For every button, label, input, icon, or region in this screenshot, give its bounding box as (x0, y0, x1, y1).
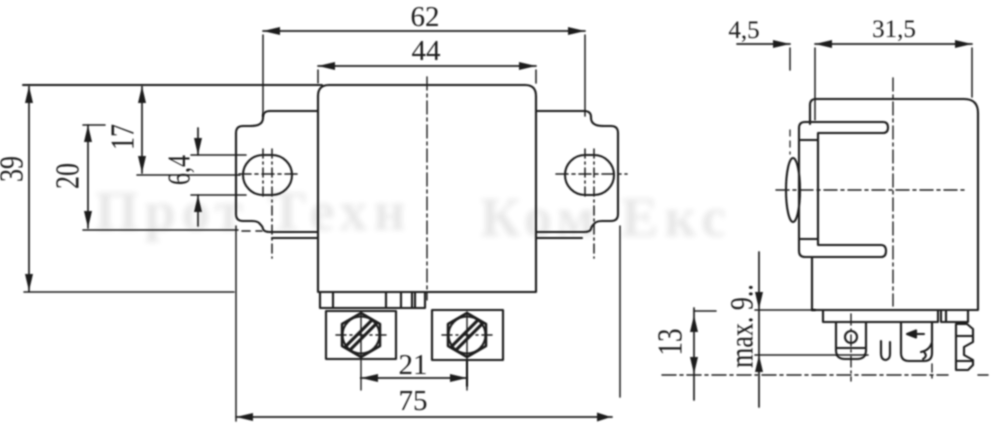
strip divider 1 (332, 292, 334, 308)
right bracket fold line (536, 237, 582, 239)
middle terminal stem (931, 322, 933, 341)
hex nut facet line top (956, 335, 973, 337)
bracket fold line bottom (799, 238, 818, 240)
right screw slot (452, 320, 482, 350)
middle terminal lower centerline (931, 364, 933, 378)
screw terminal shoulder line (836, 347, 866, 349)
left screw slot (346, 320, 376, 350)
right screw horizontal centerline (442, 334, 494, 336)
dim 62 (263, 27, 585, 116)
svg-text:17: 17 (103, 124, 141, 150)
svg-text:62: 62 (411, 1, 440, 33)
dim 4.5 (737, 40, 790, 154)
left screw horizontal centerline (336, 334, 388, 336)
svg-text:13: 13 (650, 329, 689, 356)
left screw circle (343, 317, 380, 354)
blade terminal front a (401, 292, 412, 308)
svg-text:20: 20 (48, 163, 86, 189)
left hole horizontal centerline (239, 173, 301, 175)
right screw circle (449, 317, 486, 354)
middle terminal arrow (907, 331, 924, 338)
terminals centerline right piece (978, 374, 992, 376)
side body vertical centerline (892, 78, 894, 306)
middle terminal hook (921, 342, 932, 359)
left hole vertical centerline (262, 149, 264, 199)
tab inner line (945, 310, 947, 322)
right hole vertical centerline (584, 149, 586, 199)
terminals centerline (662, 374, 948, 376)
svg-text:75: 75 (399, 385, 428, 417)
svg-text:39: 39 (0, 156, 31, 182)
svg-text:31,5: 31,5 (872, 16, 916, 43)
top extension line / body top datum (23, 84, 322, 86)
relay body (side view) (810, 99, 978, 310)
dim 39 (25, 86, 33, 291)
right terminal block (432, 310, 503, 360)
dim 13 (690, 308, 716, 400)
watermark (95, 181, 732, 249)
dim 21 (361, 360, 467, 386)
side body horizontal centerline (776, 189, 966, 191)
bottom extension line of 39 (24, 291, 234, 293)
dim 31.5 (815, 40, 972, 120)
body vertical centerline (426, 77, 428, 300)
bracket boss (786, 158, 800, 222)
narrow blade terminal (881, 341, 890, 360)
middle bent terminal (901, 322, 932, 361)
dim 75 (236, 226, 620, 422)
left bracket fold line (272, 237, 318, 239)
side view dimensions (650, 16, 972, 407)
left screw hex (342, 313, 380, 357)
dim max 9 (755, 252, 868, 407)
left screw vertical line (360, 313, 362, 390)
dimensions group (0, 1, 620, 422)
right hole horizontal centerline (556, 173, 627, 175)
relay body (front view) (318, 85, 536, 292)
bracket fold line top (799, 139, 818, 141)
svg-text:6,4: 6,4 (163, 155, 198, 185)
right bracket hole (565, 155, 614, 195)
dim 6.4 (191, 128, 246, 226)
svg-text:Прот Техн: Прот Техн (95, 181, 412, 243)
side bracket (C-shape) (799, 122, 888, 257)
dim 20 (83, 125, 262, 231)
screw terminal centerline (850, 314, 852, 381)
bottom plate right tab (941, 310, 968, 322)
left bracket hole (243, 155, 292, 195)
screw terminal (side) (836, 322, 866, 359)
dim 44 (318, 62, 536, 83)
dim 17 (137, 86, 240, 175)
right screw hex (448, 313, 486, 357)
svg-text:21: 21 (399, 349, 428, 381)
strip divider 2 (385, 292, 387, 308)
left terminal block (326, 311, 396, 359)
hex nut (side) (956, 324, 973, 370)
right screw vertical line (466, 312, 468, 390)
under-body connector strip (320, 292, 425, 308)
right mounting bracket (536, 111, 618, 232)
left mounting bracket (236, 111, 318, 232)
svg-text:4,5: 4,5 (728, 17, 759, 44)
svg-text:max. 9..: max. 9.. (725, 284, 760, 368)
screw terminal hole (845, 331, 857, 343)
hex nut facet line bottom (956, 360, 973, 362)
blade terminal front b (414, 292, 416, 308)
bottom plate left (823, 310, 938, 322)
svg-text:Ком Екс: Ком Екс (480, 187, 732, 249)
svg-text:44: 44 (412, 35, 442, 67)
